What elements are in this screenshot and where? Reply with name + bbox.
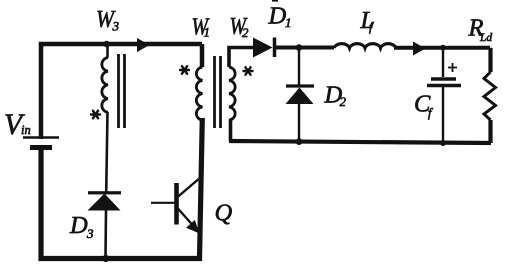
svg-text:Q: Q — [215, 200, 233, 227]
svg-text:2: 2 — [242, 25, 249, 40]
svg-text:Ld: Ld — [479, 32, 492, 44]
svg-text:in: in — [21, 123, 31, 137]
svg-text:D: D — [268, 3, 287, 30]
svg-text:3: 3 — [112, 19, 120, 34]
svg-text:1: 1 — [204, 25, 211, 40]
svg-text:1: 1 — [285, 15, 292, 30]
svg-text:D: D — [69, 212, 88, 239]
svg-text:3: 3 — [86, 226, 94, 241]
svg-text:f: f — [428, 106, 433, 120]
svg-text:2: 2 — [340, 94, 347, 109]
